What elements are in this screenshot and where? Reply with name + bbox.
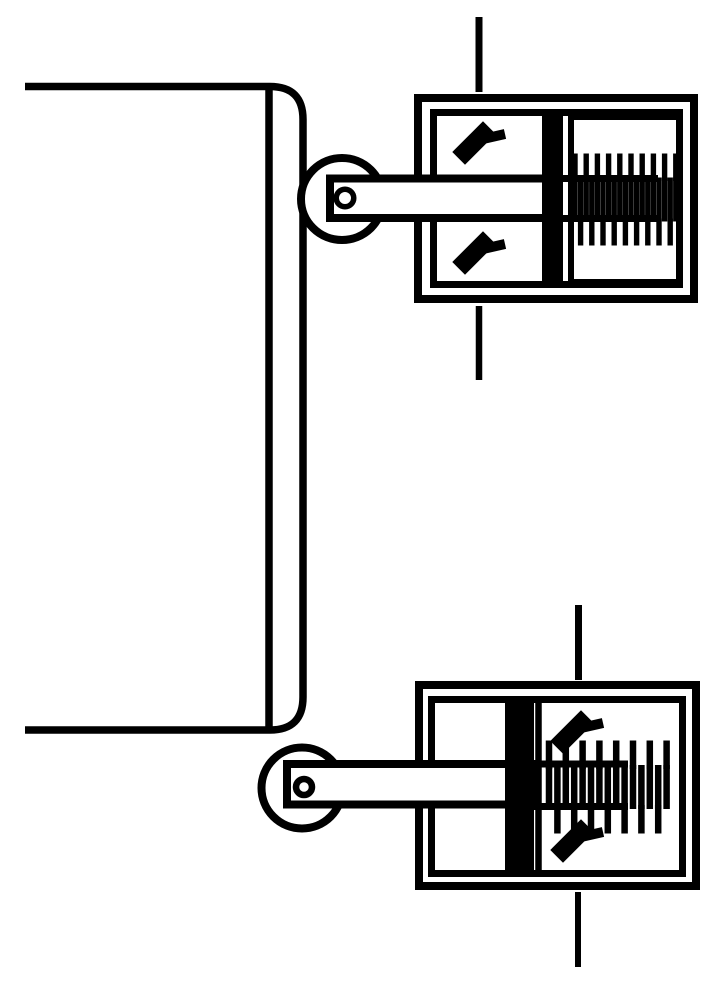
pivot hole (top roller) (336, 189, 354, 207)
rod (bottom) (287, 764, 532, 805)
housing inner (top) (434, 113, 680, 285)
housing outer (top) (418, 98, 694, 299)
door inner edge line (265, 87, 273, 731)
lower assembly centerline (below housing) (575, 892, 581, 967)
arrow in lower chamber (top housing) (465, 244, 505, 262)
upper centerline (top) (476, 17, 483, 92)
coil spring (top) (575, 154, 676, 246)
housing outer (bottom) (419, 685, 696, 886)
arrow above spring (bottom housing) (563, 723, 603, 741)
roller (top) (301, 158, 383, 240)
rod guide lines into spring chamber (top) (560, 175, 658, 182)
coil spring (bottom) (549, 741, 667, 834)
spring chamber (bottom) (539, 700, 683, 874)
door panel outline (25, 87, 303, 731)
spring chamber (top) (571, 117, 680, 282)
pivot hole (bottom roller) (296, 779, 312, 795)
arrow in upper chamber (top housing) (465, 134, 505, 152)
piston (bottom) (505, 703, 534, 870)
rod (top) (330, 179, 559, 219)
lower assembly centerline (above housing) (575, 605, 582, 680)
arrow below spring (bottom housing) (563, 832, 603, 850)
upper centerline (below housing) (476, 306, 483, 380)
rod guide lines into spring chamber (bottom) (530, 761, 628, 768)
roller (bottom) (262, 748, 343, 829)
housing inner (bottom) (432, 700, 683, 874)
piston (top) (542, 110, 563, 283)
